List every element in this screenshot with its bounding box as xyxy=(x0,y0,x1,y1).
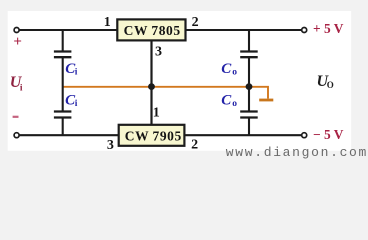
svg-text:C: C xyxy=(221,93,232,109)
svg-text:3: 3 xyxy=(155,45,162,60)
svg-text:2: 2 xyxy=(191,138,198,153)
node junction Co top x orange xyxy=(246,83,253,90)
svg-text:O: O xyxy=(327,80,334,90)
wire top-right xyxy=(185,29,304,31)
svg-text:+: + xyxy=(13,34,22,50)
node junction common vertical x orange xyxy=(148,83,155,90)
svg-text:o: o xyxy=(232,67,237,77)
svg-text:CW 7805: CW 7805 xyxy=(124,23,181,38)
wire bottom-left xyxy=(17,134,120,136)
wire common ground (orange) xyxy=(63,86,249,88)
svg-text:2: 2 xyxy=(192,15,199,30)
wire bottom-right xyxy=(183,134,304,136)
svg-text:3: 3 xyxy=(107,138,114,153)
svg-text:1: 1 xyxy=(153,105,160,120)
terminal input + xyxy=(14,28,19,33)
wire top-left xyxy=(17,29,118,31)
wire common vertical pin3 U1 to pin1 U2 xyxy=(150,41,152,125)
svg-text:− 5 V: − 5 V xyxy=(313,127,344,142)
ground xyxy=(259,99,273,102)
svg-text:1: 1 xyxy=(104,15,111,30)
regulator U2 CW7905 xyxy=(119,125,185,146)
svg-text:CW 7905: CW 7905 xyxy=(125,128,182,143)
capacitor Ci top xyxy=(54,30,72,87)
regulator U1 CW7805 xyxy=(117,19,185,40)
svg-text:www.diangon.com: www.diangon.com xyxy=(226,145,368,160)
capacitor Co top xyxy=(240,30,258,87)
terminal input - xyxy=(14,133,19,138)
label - polarity input xyxy=(13,116,19,118)
svg-text:i: i xyxy=(75,99,78,109)
terminal output -5V xyxy=(302,133,307,138)
svg-text:+ 5 V: + 5 V xyxy=(313,21,344,36)
capacitor Co bottom xyxy=(240,87,258,135)
capacitor Ci bottom xyxy=(54,87,72,135)
terminal output +5V xyxy=(302,28,307,33)
svg-text:i: i xyxy=(20,84,23,94)
svg-text:o: o xyxy=(232,99,237,109)
svg-text:i: i xyxy=(75,68,78,78)
wire ground branch xyxy=(249,87,268,99)
svg-text:C: C xyxy=(221,61,232,77)
